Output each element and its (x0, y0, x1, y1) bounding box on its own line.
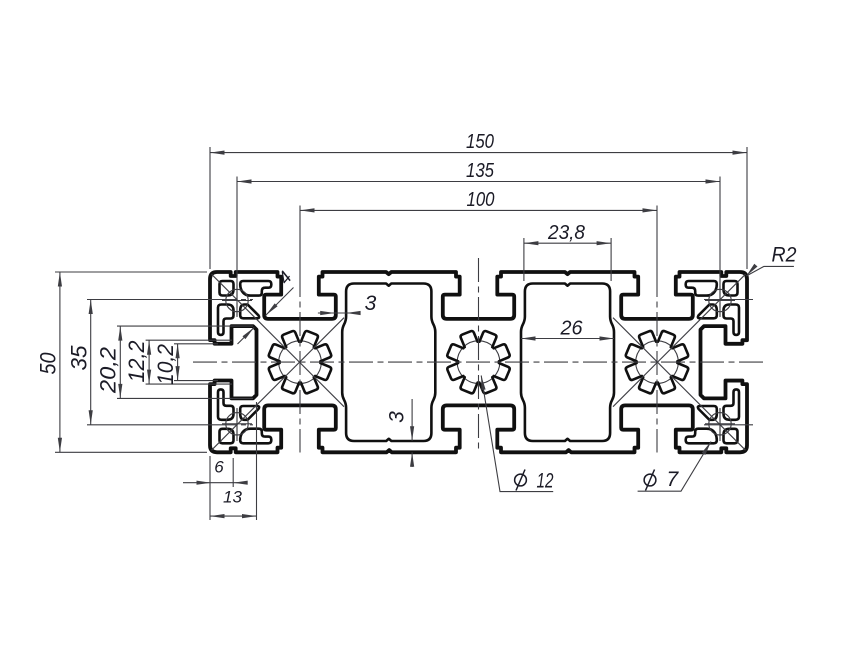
vertical centerline gear1 / ext 100 (299, 206, 301, 274)
dimension 6 ext right (232, 458, 234, 487)
dimension 4 arrow a (266, 303, 278, 315)
diagonal centerline top-left (212, 274, 345, 407)
dimension 4 arrow b (243, 327, 255, 339)
profile outer contour (210, 272, 747, 452)
dimension 26 arrows (521, 336, 536, 340)
svg-text:150: 150 (466, 131, 494, 153)
dimension 100 line (300, 209, 657, 211)
dimension 50 arrows (58, 272, 62, 287)
vertical centerline hole TL / ext 135 (236, 177, 238, 274)
dimension 135 line (237, 181, 720, 183)
cavity 2 (521, 284, 614, 442)
dimension 6 line (183, 482, 246, 484)
dimension 20,2 line (119, 326, 121, 398)
dimension 20,2 arrows (118, 326, 122, 341)
screw channel boss 3 (right) (636, 341, 679, 384)
dimension 150 ext right (746, 147, 748, 269)
dimension 26 line (521, 338, 614, 340)
dimension 3 top line (318, 312, 360, 314)
dimension 150 arrows (210, 151, 225, 155)
dimension 13 arrows (210, 514, 225, 518)
screw channel boss 1 (left) (279, 341, 322, 384)
dimension 4 leader line b (238, 327, 255, 344)
dimension 23,8 ext right (610, 238, 612, 281)
dimension 23,8 line (524, 242, 611, 244)
corner boss top-left (hole D7) (220, 281, 234, 296)
dimension 50 line (59, 272, 61, 452)
svg-text:7: 7 (667, 468, 680, 491)
horizontal centerline (193, 361, 764, 363)
dimension 12,2 arrows (147, 340, 151, 355)
dimension 6 ext left (209, 456, 211, 520)
dimension 50 ext bottom (55, 451, 207, 453)
corner boss bottom-right (hole D7) (724, 429, 738, 444)
dimension 6 arrows (197, 481, 212, 485)
screw channel boss 2 (center) (457, 341, 500, 384)
vertical centerline gear2 (478, 258, 480, 453)
dimension 13 line (210, 515, 257, 517)
corner boss top-right (hole D7) (724, 281, 738, 296)
svg-text:26: 26 (560, 317, 584, 339)
svg-text:135: 135 (466, 160, 495, 182)
svg-text:13: 13 (223, 488, 242, 507)
dimension 3 bottom line a (411, 399, 413, 441)
dimension 150 line (210, 152, 747, 154)
diameter 7 leader (638, 442, 711, 492)
svg-text:10,2: 10,2 (153, 344, 178, 385)
dimension 20,2 ext bottom (117, 397, 253, 399)
svg-text:100: 100 (467, 189, 495, 211)
vertical centerline hole TR / ext 135 (719, 177, 721, 274)
horizontal centerline holes top / ext 35 (87, 299, 211, 301)
dimension 3 bottom line b (411, 452, 413, 467)
dimension 3 bottom arrow b (410, 452, 414, 467)
svg-text:3: 3 (386, 411, 409, 423)
dimension 100 arrows (300, 208, 315, 212)
diagonal centerline bottom-left (212, 318, 345, 451)
vertical centerline hole BL (236, 408, 238, 441)
dimension 12,2 ext top (146, 339, 232, 341)
dimension 12,2 line (148, 340, 150, 384)
dimension 135 arrows (237, 179, 252, 183)
dimension 10,2 arrows (176, 344, 180, 358)
svg-text:3: 3 (365, 292, 377, 315)
diagonal centerline bottom-right (613, 318, 746, 451)
dimension 10,2 ext top (174, 343, 218, 345)
diameter 12 leader (481, 376, 553, 492)
vertical centerline hole BR (719, 408, 721, 441)
horizontal centerline hole TR right (704, 299, 753, 301)
dimension 150 ext left (209, 147, 211, 269)
svg-text:12,2: 12,2 (124, 341, 149, 383)
svg-text:20,2: 20,2 (95, 347, 120, 394)
radius R2 leader (746, 266, 794, 276)
svg-text:R2: R2 (772, 243, 797, 266)
cavity 1 (342, 284, 435, 442)
svg-text:12: 12 (537, 470, 554, 493)
dimension 10,2 line (177, 344, 179, 381)
svg-text:23,8: 23,8 (547, 222, 585, 244)
diameter 12 symbol (515, 474, 527, 486)
diameter 7 arrow (702, 442, 711, 456)
dimension 50 ext top (55, 271, 207, 273)
svg-text:6: 6 (214, 458, 224, 477)
radius R2 arrow (746, 264, 757, 276)
dimension 10,2 ext bottom (174, 380, 218, 382)
diameter 12 arrow (481, 376, 485, 391)
dimension 4 leader line a (266, 288, 294, 316)
dimension 3 bottom arrow a (410, 426, 414, 441)
corner boss bottom-left (hole D7) (220, 429, 234, 444)
dimension 35 arrows (89, 300, 93, 315)
dimension 35 line (90, 300, 92, 425)
svg-text:35: 35 (66, 345, 91, 371)
diagonal centerline top-right (613, 274, 746, 407)
dimension 12,2 ext bottom (146, 383, 232, 385)
horizontal centerline holes bottom / ext 35 (87, 424, 211, 426)
svg-text:50: 50 (35, 352, 60, 375)
horizontal centerline hole BR right (704, 424, 753, 426)
diameter 7 symbol (644, 474, 656, 486)
dimension 23,8 ext left (523, 238, 525, 281)
dimension 13 ext right (256, 402, 258, 520)
dimension 20,2 ext top (117, 325, 253, 327)
dimension 3 top arrows (320, 311, 335, 315)
vertical centerline gear3 / ext 100 (656, 206, 658, 274)
dimension 23,8 arrows (524, 241, 539, 245)
